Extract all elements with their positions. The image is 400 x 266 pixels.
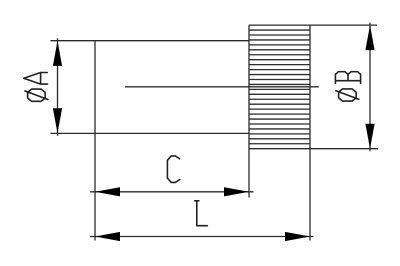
label L	[195, 201, 208, 226]
label ØB (rotated 90° CCW): letter B	[335, 72, 360, 84]
label C	[167, 156, 179, 183]
label ØA (rotated 90° CCW): letter A	[24, 73, 48, 85]
arrowhead C left	[95, 187, 120, 196]
knurl left edge / shaft right edge, extended down as extension line for C	[248, 25, 250, 197]
knurl top edge with right extension line for ØB	[249, 24, 377, 26]
arrowhead L right	[285, 232, 310, 241]
arrowhead ØB up	[365, 25, 374, 50]
label ØB: letter Ø	[336, 89, 359, 101]
arrowhead ØA up	[53, 41, 62, 66]
knurl right edge, extended down as extension line for L	[309, 25, 311, 240]
centerline	[125, 86, 319, 88]
shaft body top edge with left extension line	[51, 40, 250, 42]
knurling hatch lines	[249, 30, 310, 144]
dimension line L (horizontal)	[90, 236, 314, 238]
arrowhead L left	[95, 232, 120, 241]
arrowhead C right	[224, 187, 249, 196]
shaft left edge, extended down as extension line for C and L	[94, 41, 96, 241]
dimension line ØB (vertical, right)	[369, 23, 371, 152]
dimension line C (horizontal)	[90, 191, 254, 193]
arrowhead ØA down	[53, 108, 62, 133]
arrowhead ØB down	[365, 124, 374, 149]
label ØA: letter Ø	[25, 89, 48, 101]
dimension line ØA (vertical, left)	[57, 38, 59, 136]
shaft body bottom edge with left extension line	[51, 132, 250, 134]
knurl bottom edge with right extension line for ØB	[249, 148, 378, 150]
